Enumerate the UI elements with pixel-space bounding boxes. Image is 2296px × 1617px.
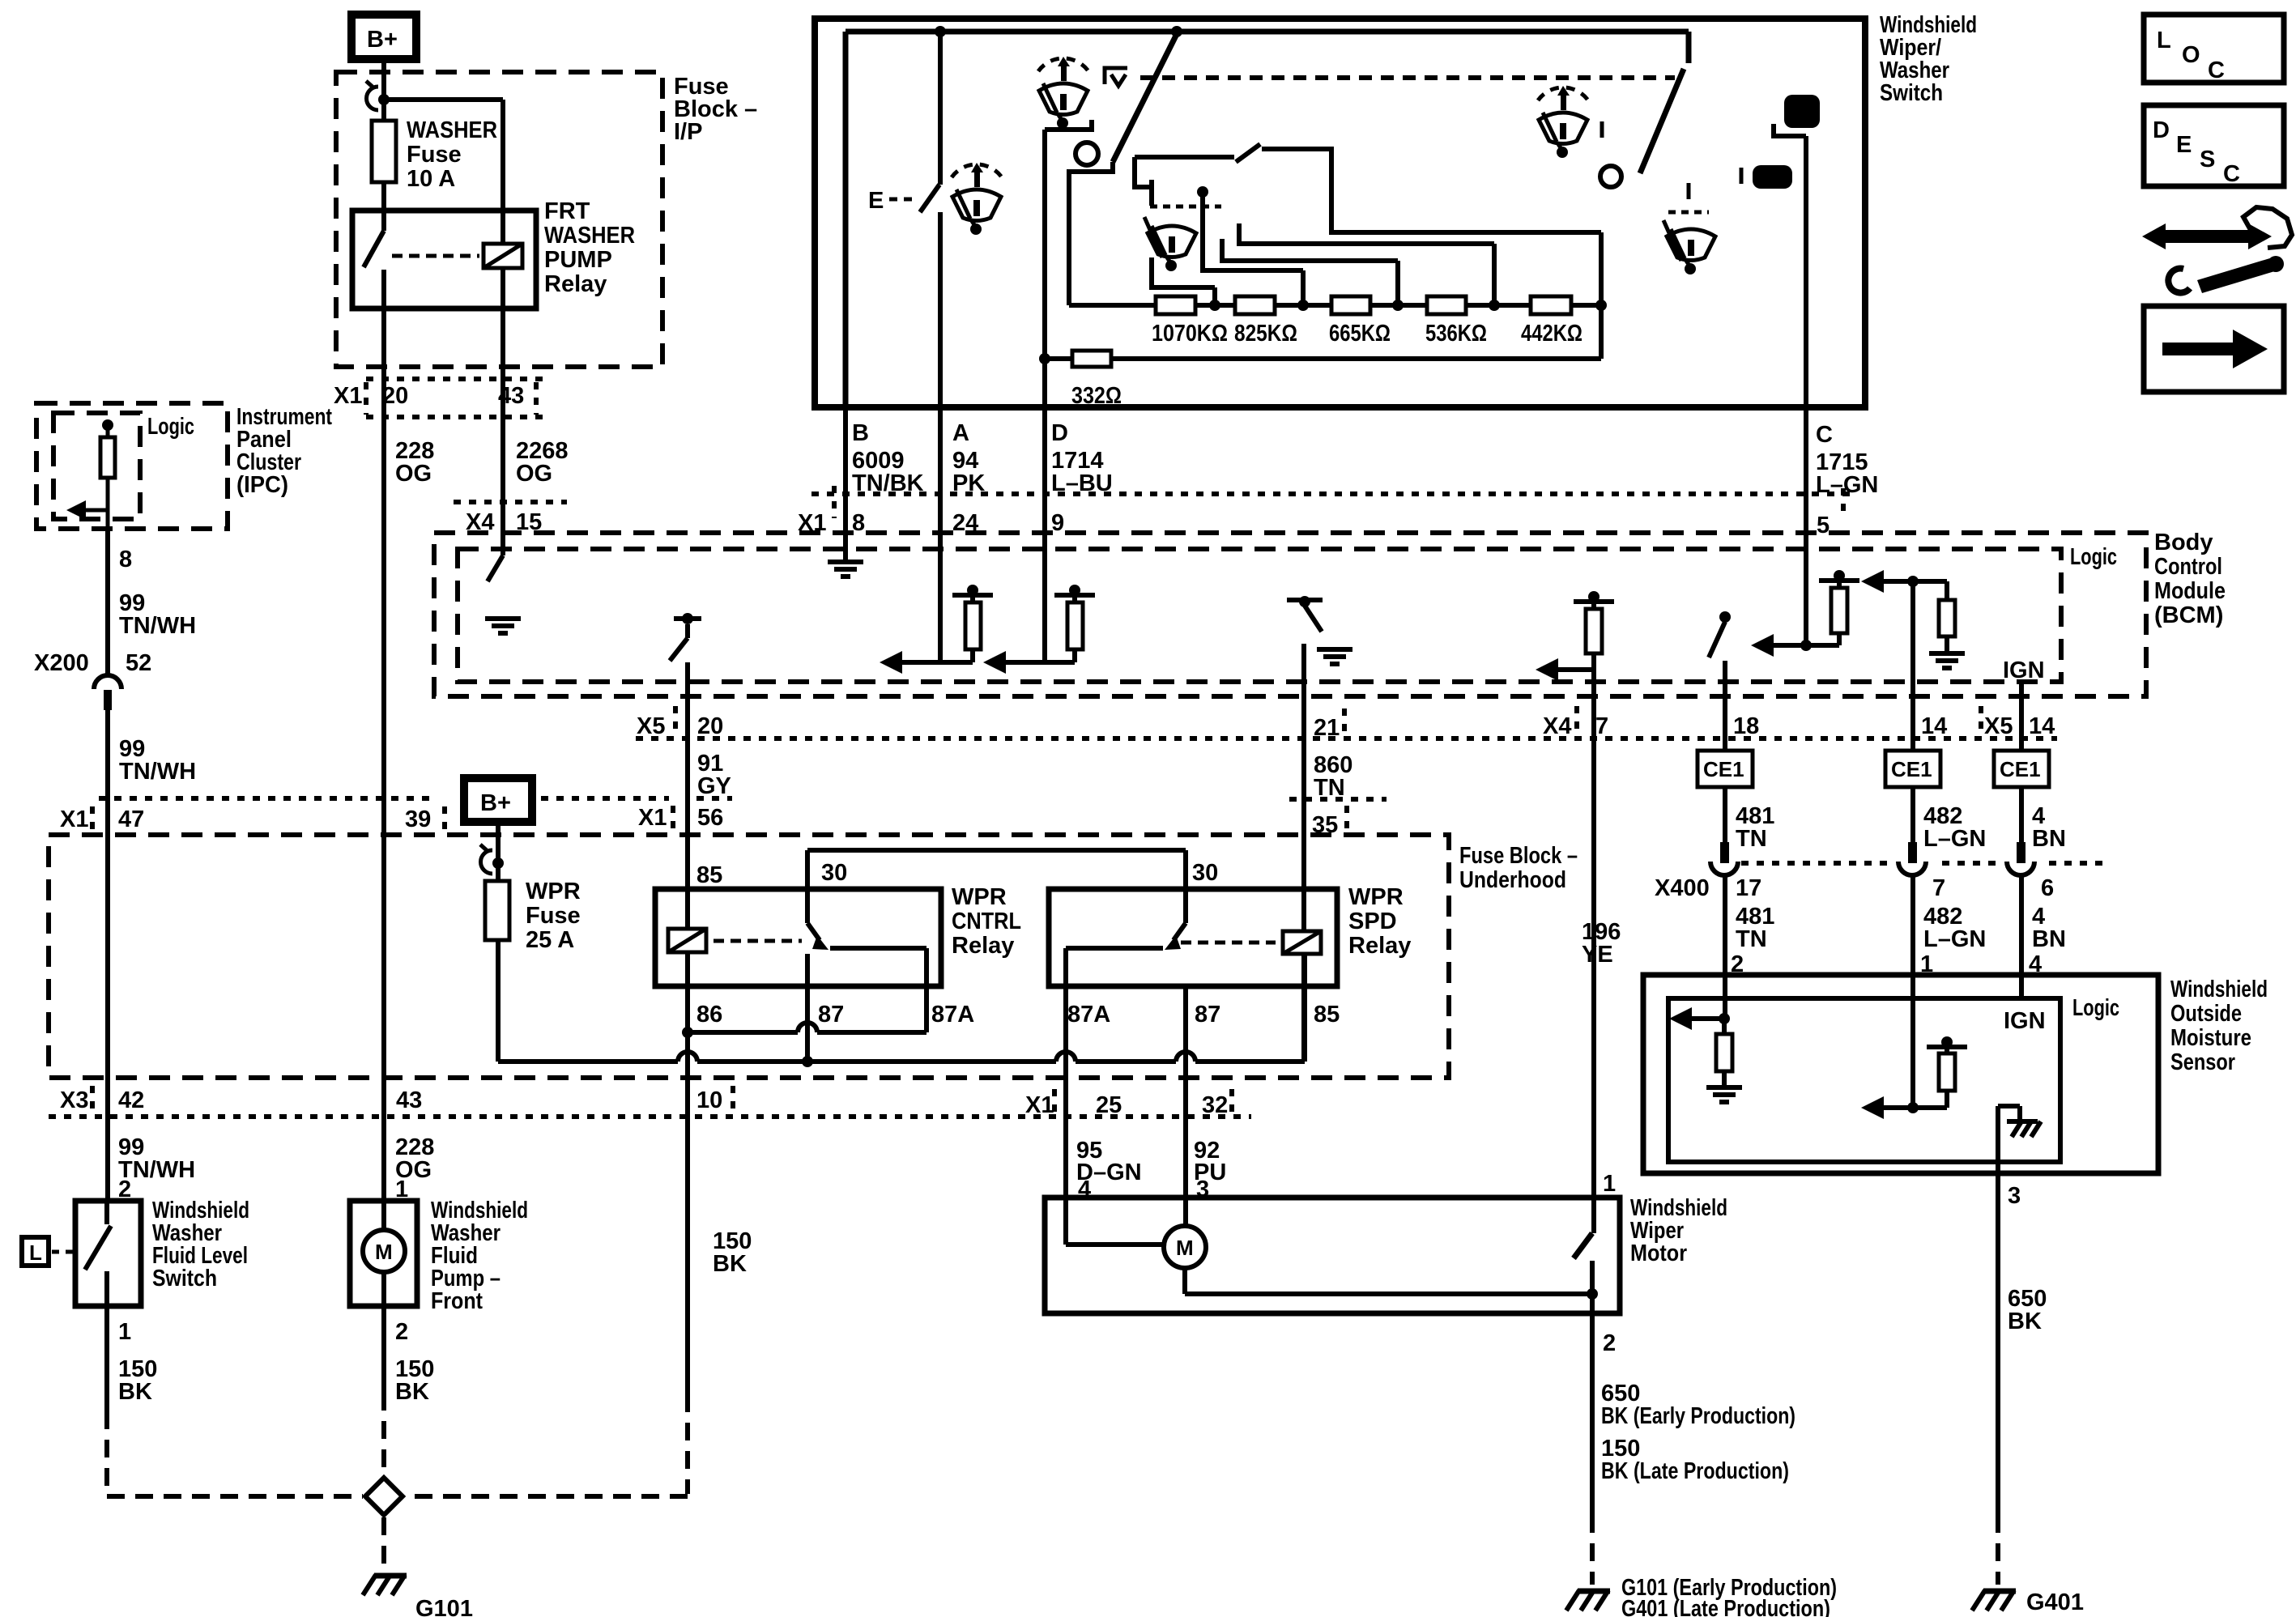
svg-text:1: 1 (1603, 1171, 1616, 1197)
svg-text:10 A: 10 A (407, 166, 455, 192)
svg-text:L: L (2157, 28, 2171, 53)
svg-text:Moisture: Moisture (2170, 1025, 2251, 1051)
svg-text:BK (Early Production): BK (Early Production) (1601, 1403, 1795, 1429)
svg-text:1: 1 (1920, 951, 1933, 977)
svg-text:9: 9 (1051, 510, 1064, 536)
svg-text:Logic: Logic (2070, 544, 2117, 570)
svg-text:39: 39 (405, 806, 431, 832)
svg-text:536KΩ: 536KΩ (1425, 321, 1487, 347)
svg-text:1: 1 (395, 1177, 408, 1202)
svg-text:30: 30 (1192, 860, 1218, 886)
svg-text:X3: X3 (60, 1087, 88, 1113)
svg-text:WASHER: WASHER (407, 117, 497, 143)
svg-text:BK: BK (713, 1251, 747, 1277)
svg-text:D: D (1051, 420, 1068, 446)
svg-text:BK: BK (118, 1379, 152, 1405)
svg-text:S: S (2200, 147, 2215, 172)
svg-text:BK: BK (395, 1379, 429, 1405)
svg-text:TN/WH: TN/WH (119, 613, 196, 639)
svg-text:X4: X4 (466, 509, 494, 535)
svg-text:B: B (852, 420, 869, 446)
svg-text:14: 14 (1921, 713, 1947, 739)
svg-text:47: 47 (118, 806, 144, 832)
svg-text:Logic: Logic (2072, 995, 2119, 1021)
svg-text:FRT: FRT (544, 198, 590, 224)
svg-text:52: 52 (126, 650, 151, 676)
svg-text:CNTRL: CNTRL (952, 908, 1021, 934)
svg-text:87: 87 (1195, 1002, 1220, 1028)
svg-text:Fuse Block –: Fuse Block – (1459, 843, 1578, 869)
svg-text:Switch: Switch (1880, 80, 1943, 106)
svg-text:TN/WH: TN/WH (119, 759, 196, 785)
svg-text:87A: 87A (931, 1002, 974, 1028)
svg-text:SPD: SPD (1348, 908, 1397, 934)
svg-text:E: E (2176, 132, 2192, 158)
svg-text:30: 30 (821, 860, 847, 886)
svg-text:Module: Module (2154, 578, 2226, 604)
svg-text:3: 3 (1196, 1177, 1209, 1202)
svg-text:BN: BN (2032, 926, 2066, 952)
svg-text:G401 (Late Production): G401 (Late Production) (1621, 1596, 1830, 1617)
svg-text:2: 2 (1731, 951, 1744, 977)
svg-text:WASHER: WASHER (544, 223, 635, 249)
svg-text:BK: BK (2008, 1308, 2042, 1334)
svg-text:56: 56 (697, 805, 723, 831)
svg-text:L–GN: L–GN (1923, 926, 1986, 952)
svg-text:Control: Control (2154, 554, 2222, 580)
svg-text:BN: BN (2032, 826, 2066, 852)
svg-text:87: 87 (818, 1002, 844, 1028)
svg-text:A: A (952, 420, 969, 446)
svg-text:3: 3 (2008, 1183, 2021, 1209)
svg-text:24: 24 (952, 510, 978, 536)
svg-text:(BCM): (BCM) (2154, 602, 2223, 628)
svg-text:X5: X5 (637, 713, 665, 739)
svg-text:2: 2 (1603, 1330, 1616, 1356)
svg-text:WPR: WPR (952, 884, 1007, 910)
svg-text:IGN: IGN (2003, 657, 2045, 683)
svg-text:15: 15 (516, 509, 542, 535)
svg-text:X1: X1 (334, 383, 362, 409)
svg-text:25: 25 (1096, 1092, 1122, 1118)
svg-text:18: 18 (1733, 713, 1759, 739)
svg-text:GY: GY (697, 773, 731, 799)
svg-text:CE1: CE1 (1891, 757, 1932, 781)
svg-text:C: C (1816, 422, 1833, 448)
svg-text:6: 6 (2041, 875, 2054, 901)
svg-text:43: 43 (498, 383, 524, 409)
svg-text:43: 43 (396, 1087, 422, 1113)
svg-text:X1: X1 (1025, 1092, 1054, 1118)
svg-text:1: 1 (118, 1319, 131, 1345)
svg-text:IGN: IGN (2004, 1008, 2046, 1034)
svg-text:665KΩ: 665KΩ (1329, 321, 1391, 347)
svg-text:TN: TN (1736, 826, 1767, 852)
svg-text:BK (Late Production): BK (Late Production) (1601, 1458, 1789, 1484)
svg-text:332Ω: 332Ω (1071, 383, 1122, 409)
svg-text:2: 2 (395, 1319, 408, 1345)
svg-text:7: 7 (1932, 875, 1945, 901)
svg-text:42: 42 (118, 1087, 144, 1113)
svg-text:D: D (2153, 117, 2170, 143)
svg-text:825KΩ: 825KΩ (1234, 321, 1297, 347)
svg-text:YE: YE (1582, 942, 1613, 968)
svg-text:20: 20 (697, 713, 723, 739)
svg-text:X200: X200 (34, 650, 89, 676)
svg-text:M: M (1176, 1236, 1194, 1260)
svg-text:M: M (375, 1240, 393, 1264)
svg-text:85: 85 (1314, 1002, 1340, 1028)
svg-text:Relay: Relay (544, 271, 607, 297)
svg-text:25 A: 25 A (526, 927, 574, 953)
svg-text:Switch: Switch (152, 1266, 217, 1291)
svg-text:10: 10 (696, 1087, 722, 1113)
svg-text:C: C (2223, 161, 2240, 187)
svg-text:32: 32 (1202, 1092, 1228, 1118)
svg-text:I/P: I/P (674, 119, 702, 145)
svg-text:E: E (868, 188, 884, 214)
svg-text:442KΩ: 442KΩ (1521, 321, 1582, 347)
svg-text:G401: G401 (2026, 1589, 2084, 1615)
svg-text:17: 17 (1736, 875, 1761, 901)
svg-text:Outside: Outside (2170, 1001, 2242, 1027)
svg-text:CE1: CE1 (2000, 757, 2041, 781)
svg-text:5: 5 (1817, 513, 1830, 538)
svg-text:TN: TN (1736, 926, 1767, 952)
svg-text:Relay: Relay (1348, 933, 1411, 959)
svg-text:PUMP: PUMP (544, 247, 612, 273)
svg-text:Logic: Logic (147, 414, 194, 440)
svg-text:1070KΩ: 1070KΩ (1152, 321, 1228, 347)
svg-text:Front: Front (431, 1288, 483, 1314)
svg-text:14: 14 (2029, 713, 2055, 739)
svg-text:B+: B+ (367, 27, 398, 53)
svg-text:87A: 87A (1067, 1002, 1110, 1028)
svg-text:X5: X5 (1984, 713, 2013, 739)
svg-text:X1: X1 (638, 805, 667, 831)
svg-text:C: C (2208, 57, 2225, 83)
svg-text:35: 35 (1312, 812, 1338, 838)
svg-text:4: 4 (1078, 1177, 1091, 1202)
svg-text:X4: X4 (1543, 713, 1571, 739)
svg-text:WPR: WPR (526, 879, 581, 904)
svg-text:L–GN: L–GN (1923, 826, 1986, 852)
svg-text:86: 86 (696, 1002, 722, 1028)
svg-text:21: 21 (1314, 715, 1340, 741)
svg-text:L: L (29, 1240, 42, 1265)
svg-text:2: 2 (118, 1177, 131, 1202)
svg-text:8: 8 (852, 510, 865, 536)
svg-text:Sensor: Sensor (2170, 1049, 2235, 1075)
svg-text:8: 8 (119, 547, 132, 572)
svg-text:X1: X1 (60, 806, 88, 832)
svg-text:20: 20 (382, 383, 408, 409)
svg-text:X1: X1 (798, 510, 826, 536)
svg-text:X400: X400 (1655, 875, 1710, 901)
svg-text:OG: OG (516, 461, 552, 487)
svg-text:Motor: Motor (1630, 1240, 1687, 1266)
svg-text:Body: Body (2154, 530, 2213, 555)
svg-text:4: 4 (2029, 951, 2042, 977)
svg-text:Relay: Relay (952, 933, 1014, 959)
svg-text:G101: G101 (415, 1596, 473, 1617)
svg-text:85: 85 (696, 862, 722, 888)
svg-text:Underhood: Underhood (1459, 867, 1566, 893)
svg-text:OG: OG (395, 461, 432, 487)
svg-text:7: 7 (1595, 713, 1608, 739)
svg-text:B+: B+ (480, 790, 511, 816)
svg-text:O: O (2182, 42, 2200, 68)
svg-text:Windshield: Windshield (2170, 977, 2268, 1002)
svg-text:Fuse: Fuse (526, 903, 581, 929)
svg-text:(IPC): (IPC) (236, 472, 288, 498)
svg-text:Fuse: Fuse (407, 142, 462, 168)
svg-text:CE1: CE1 (1703, 757, 1744, 781)
svg-text:WPR: WPR (1348, 884, 1404, 910)
